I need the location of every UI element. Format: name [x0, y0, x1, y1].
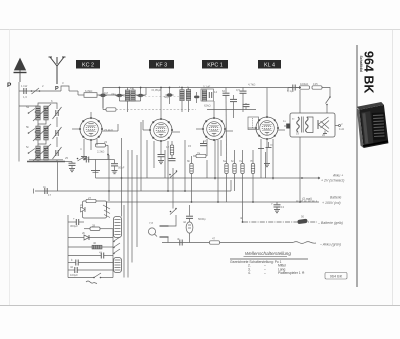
sidebar divider line: [356, 45, 358, 287]
wire misc verticals: [141, 122, 266, 209]
svg-text:27: 27: [88, 196, 92, 200]
capacitor with ground left: [65, 162, 76, 172]
bus line D -Akku: [162, 242, 316, 244]
svg-text:7a: 7a: [239, 159, 243, 163]
V1 cathode network: [81, 139, 111, 163]
radio cabinet photo: [357, 102, 389, 148]
phones jack 7,8: [148, 215, 176, 243]
svg-text:Wellenschalterstellung: Wellenschalterstellung: [245, 251, 291, 256]
capacitor 100uF: [68, 267, 113, 273]
junction dots on buses: [108, 177, 303, 223]
svg-text:Tr: Tr: [292, 117, 295, 121]
note table rows: [230, 260, 305, 275]
svg-text:0,5: 0,5: [236, 88, 240, 92]
svg-text:4d: 4d: [183, 220, 187, 224]
svg-text:1b: 1b: [43, 185, 47, 189]
svg-text:4: 4: [80, 147, 82, 151]
V1 screen resistor: [91, 160, 100, 179]
capacitor mid block: [68, 253, 113, 259]
capacitor small: [230, 95, 237, 102]
mains squiggle: [86, 281, 97, 284]
diode 2: [68, 235, 113, 240]
svg-text:5a: 5a: [26, 105, 30, 109]
coupling capacitor 0,1uF top right: [288, 85, 300, 92]
bus line C -Batterie: [243, 221, 317, 223]
wire antenna feed vertical: [18, 82, 20, 162]
svg-text:7: 7: [271, 202, 273, 206]
svg-text:62kΩ: 62kΩ: [204, 104, 211, 108]
antenna A2: [49, 57, 66, 84]
svg-text:4.: 4.: [248, 271, 251, 275]
svg-text:4,7kΩ: 4,7kΩ: [248, 83, 255, 87]
wire to tone switch: [322, 88, 330, 98]
svg-text:6a: 6a: [223, 159, 227, 163]
svg-text:50μF: 50μF: [118, 166, 125, 170]
tube V1 KC2: [72, 112, 118, 141]
svg-text:6b: 6b: [187, 159, 191, 163]
capacitor + lower: [68, 258, 113, 266]
svg-text:Gezeichnete Schalterstellung:: Gezeichnete Schalterstellung: Po 1: [230, 260, 282, 264]
svg-text:5000p: 5000p: [198, 217, 206, 221]
svg-text:23: 23: [104, 140, 108, 144]
svg-text:100kΩ: 100kΩ: [300, 82, 308, 86]
svg-text:2a: 2a: [80, 203, 84, 207]
svg-text:+ 2V (schwarz): + 2V (schwarz): [321, 179, 344, 183]
V4 shield box: [248, 117, 259, 130]
tube V4 KL4: [248, 88, 285, 141]
wire anode vertical through box: [299, 90, 301, 113]
band coil group 1: [19, 103, 62, 124]
svg-text:1xΩ: 1xΩ: [339, 127, 344, 131]
resistor 135 top right: [312, 86, 322, 89]
svg-text:6: 6: [51, 99, 53, 103]
svg-text:4i: 4i: [240, 216, 243, 220]
tube V3 KPC1: [196, 101, 233, 141]
svg-text:300μF: 300μF: [70, 224, 78, 228]
svg-text:50: 50: [301, 215, 305, 219]
resistor 6,8k antenna series: [84, 88, 146, 98]
capacitor 4f on line D: [180, 240, 182, 246]
tone switch: [326, 96, 331, 113]
svg-text:100μF: 100μF: [70, 273, 78, 277]
svg-text:7,8: 7,8: [149, 221, 153, 225]
resistor column R6b: [190, 156, 193, 202]
band coil group 3: [28, 144, 62, 162]
svg-text:24a: 24a: [111, 92, 116, 96]
dashed gang coupling: [116, 96, 183, 98]
svg-text:4f: 4f: [177, 237, 180, 241]
choke 40: [68, 245, 113, 249]
IF transformer dark pair: [180, 87, 191, 112]
capacitor 5000p: [186, 205, 193, 222]
resistor column R6a: [225, 164, 228, 203]
V3 anode parts: [193, 139, 218, 202]
svg-text:50μ: 50μ: [164, 95, 169, 99]
switch near column: [77, 157, 86, 162]
terminal arrow +100V: [302, 196, 342, 206]
svg-text:≈0,05μF: ≈0,05μF: [151, 88, 162, 92]
stamp box 964 BK: [325, 273, 347, 280]
grid capacitor 50p V4: [243, 103, 250, 110]
svg-text:1,6: 1,6: [23, 95, 27, 99]
block top edge to +100V: [106, 202, 108, 210]
resistor column R6c: [233, 150, 236, 191]
antenna input chain: [19, 86, 84, 95]
wire column to bus B: [57, 162, 59, 192]
V2 grid resistor: [184, 140, 186, 191]
svg-text:7a: 7a: [197, 151, 201, 155]
tube label box KC2: [76, 60, 100, 69]
trimmer blob: [194, 92, 199, 103]
svg-text:7b: 7b: [250, 159, 254, 163]
resistor column R7a: [241, 150, 244, 222]
V1 decoupling cap to ground: [111, 160, 118, 174]
svg-text:1: 1: [179, 85, 181, 89]
svg-text:42: 42: [70, 265, 74, 269]
svg-text:62: 62: [222, 89, 226, 93]
svg-text:6,8kΩ: 6,8kΩ: [85, 89, 92, 93]
svg-text:1x: 1x: [283, 119, 287, 123]
svg-text:47: 47: [212, 237, 216, 241]
wave switch wafer 1: [114, 217, 122, 238]
svg-text:J: J: [341, 122, 343, 126]
speaker switch lower: [170, 208, 177, 215]
tube V2 KF3: [143, 87, 180, 142]
resistor 28: [84, 227, 113, 230]
svg-text:25: 25: [65, 156, 69, 160]
V2 cathode network: [154, 141, 176, 191]
wire V3 coupling verticals: [221, 102, 234, 156]
svg-text:0,1μF: 0,1μF: [287, 89, 294, 93]
resistor column R7b: [251, 150, 254, 202]
band coil group 2: [28, 124, 62, 144]
svg-text:2: 2: [42, 84, 44, 88]
power block loop: [81, 199, 111, 218]
bus line A heater +2V: [96, 177, 321, 179]
svg-text:12: 12: [166, 145, 170, 149]
electrolytic on line C: [297, 219, 307, 225]
bus line B: [34, 180, 232, 194]
component value labels: [21, 81, 344, 277]
coil column bottom bar: [27, 160, 65, 162]
svg-text:0,1μF: 0,1μF: [203, 85, 210, 89]
svg-text:24: 24: [130, 86, 134, 90]
svg-text:17: 17: [48, 193, 52, 197]
resistor 100k top right: [300, 86, 310, 89]
svg-text:6c: 6c: [231, 159, 235, 163]
tube label box KPC1: [202, 60, 228, 69]
svg-text:41: 41: [99, 251, 103, 255]
electrolytic 300uF: [68, 217, 84, 226]
svg-text:Akku +: Akku +: [332, 174, 343, 178]
svg-text:2b: 2b: [82, 231, 86, 235]
grid line between V3 V4: [207, 109, 256, 111]
wave switch contacts mid: [113, 237, 120, 254]
bus line +100V: [107, 201, 320, 202]
svg-text:19: 19: [296, 132, 300, 136]
svg-text:+ 100V (rot): + 100V (rot): [322, 201, 341, 205]
note title Wellenschalterstellung: [230, 251, 308, 259]
svg-text:23,4kΩ: 23,4kΩ: [104, 128, 113, 132]
svg-text:16: 16: [203, 139, 207, 143]
svg-text:+: +: [73, 217, 75, 221]
IF transformer box: [201, 89, 214, 101]
svg-text:5b: 5b: [85, 156, 89, 160]
svg-text:28: 28: [92, 224, 96, 228]
V4 cathode wires: [258, 139, 273, 180]
svg-text:–: –: [264, 271, 266, 275]
speaker switch upper: [169, 168, 177, 178]
svg-text:– Akku (grün): – Akku (grün): [319, 243, 341, 247]
tube label box KF3: [149, 60, 174, 69]
output terminal: [335, 125, 341, 127]
left vertical of power block: [67, 215, 69, 278]
coupling capacitor 62: [223, 88, 230, 164]
grid capacitor 0,5: [240, 88, 247, 113]
block right verticals: [109, 138, 137, 278]
resistor 47 on line D: [210, 241, 220, 244]
svg-text:14: 14: [214, 90, 218, 94]
svg-text:(3 mal): (3 mal): [302, 197, 312, 201]
svg-text:5b: 5b: [26, 125, 30, 129]
crystal earpiece oval: [186, 222, 193, 243]
svg-text:13: 13: [281, 205, 285, 209]
svg-text:40: 40: [93, 241, 97, 245]
tube label box KL4: [258, 60, 281, 69]
svg-text:Batterie: Batterie: [330, 196, 342, 200]
svg-text:3: 3: [62, 81, 64, 85]
gang coupling rod: [103, 108, 196, 111]
svg-text:964 BK: 964 BK: [330, 274, 343, 278]
coupling capacitor 50u dark: [166, 87, 174, 104]
svg-text:1M: 1M: [104, 91, 109, 95]
electrolytic at speaker box: [284, 124, 290, 129]
terminal arrow +2V: [321, 174, 344, 183]
mains switch: [68, 273, 113, 278]
svg-text:Plattenspieler 1 ≙: Plattenspieler 1 ≙: [278, 271, 305, 275]
antenna A1: [14, 59, 27, 83]
svg-text:5c: 5c: [26, 145, 30, 149]
svg-text:– Batterie (gelb): – Batterie (gelb): [317, 221, 343, 225]
tuned loop 1: [115, 87, 144, 112]
wave switch wafer 2: [114, 258, 122, 273]
svg-text:2,2kΩ: 2,2kΩ: [97, 150, 104, 154]
svg-text:20: 20: [322, 133, 326, 137]
decoupling cap to ground on +100V: [274, 202, 281, 213]
svg-text:135: 135: [313, 82, 318, 86]
svg-text:1 LW: 1 LW: [21, 84, 28, 88]
speaker box: [290, 113, 335, 137]
wire top rail: [103, 88, 299, 109]
oscillator blob a: [99, 88, 107, 110]
svg-text:15: 15: [188, 144, 192, 148]
